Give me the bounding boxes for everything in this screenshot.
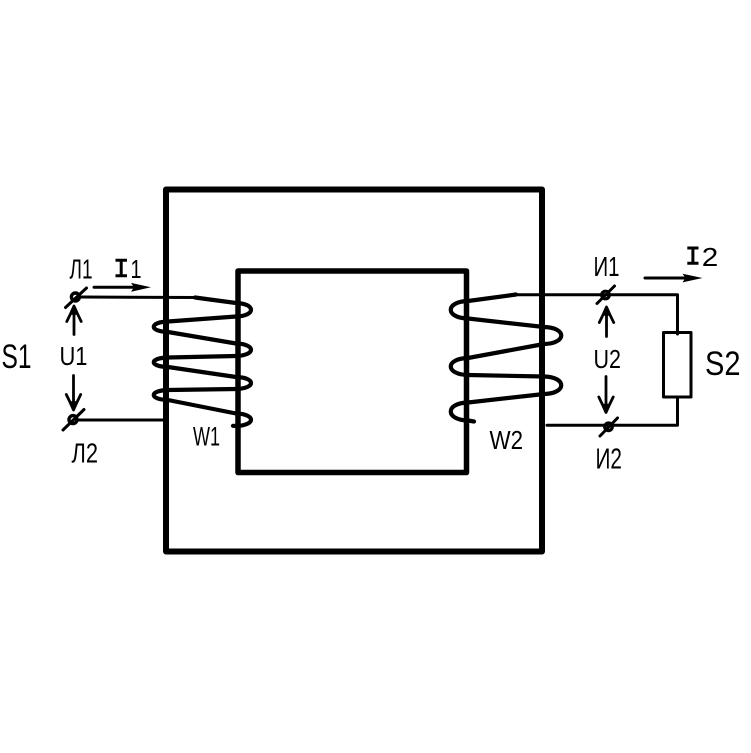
- svg-text:Л1: Л1: [70, 254, 93, 285]
- svg-text:Л2: Л2: [72, 438, 99, 469]
- terminal И2: [600, 418, 618, 436]
- winding W1: [154, 298, 251, 427]
- svg-text:И1: И1: [594, 251, 620, 282]
- svg-text:U1: U1: [60, 341, 88, 371]
- burden resistor S2: [664, 333, 692, 398]
- svg-text:И2: И2: [596, 444, 623, 476]
- svg-text:W1: W1: [193, 422, 220, 452]
- terminal Л2: [63, 410, 84, 431]
- transformer core window inner edge: [238, 271, 467, 473]
- voltage arrow U1 up: [67, 305, 81, 334]
- voltage arrow U2 down: [599, 377, 613, 414]
- svg-text:1: 1: [131, 256, 142, 284]
- svg-text:2: 2: [702, 244, 719, 272]
- wire winding W2 through И1 terminal to resistor: [514, 295, 678, 334]
- wire Л2 terminal to core: [79, 419, 168, 422]
- current arrow I1: [94, 283, 151, 292]
- label I2: [687, 244, 718, 272]
- terminal И1: [597, 286, 615, 304]
- transformer core outer edge: [166, 190, 542, 552]
- current arrow I2: [645, 274, 703, 283]
- voltage arrow U2 up: [599, 306, 613, 336]
- label I1: [116, 256, 142, 284]
- svg-text:W2: W2: [490, 425, 524, 455]
- svg-text:S1: S1: [2, 338, 32, 376]
- wire resistor through И2 terminal to core: [547, 397, 678, 425]
- wire Л1 terminal to winding W1: [82, 296, 198, 300]
- winding W2: [451, 295, 562, 422]
- svg-text:S2: S2: [705, 345, 741, 383]
- svg-text:U2: U2: [594, 346, 622, 374]
- terminal Л1: [66, 288, 87, 308]
- voltage arrow U1 down: [66, 376, 80, 411]
